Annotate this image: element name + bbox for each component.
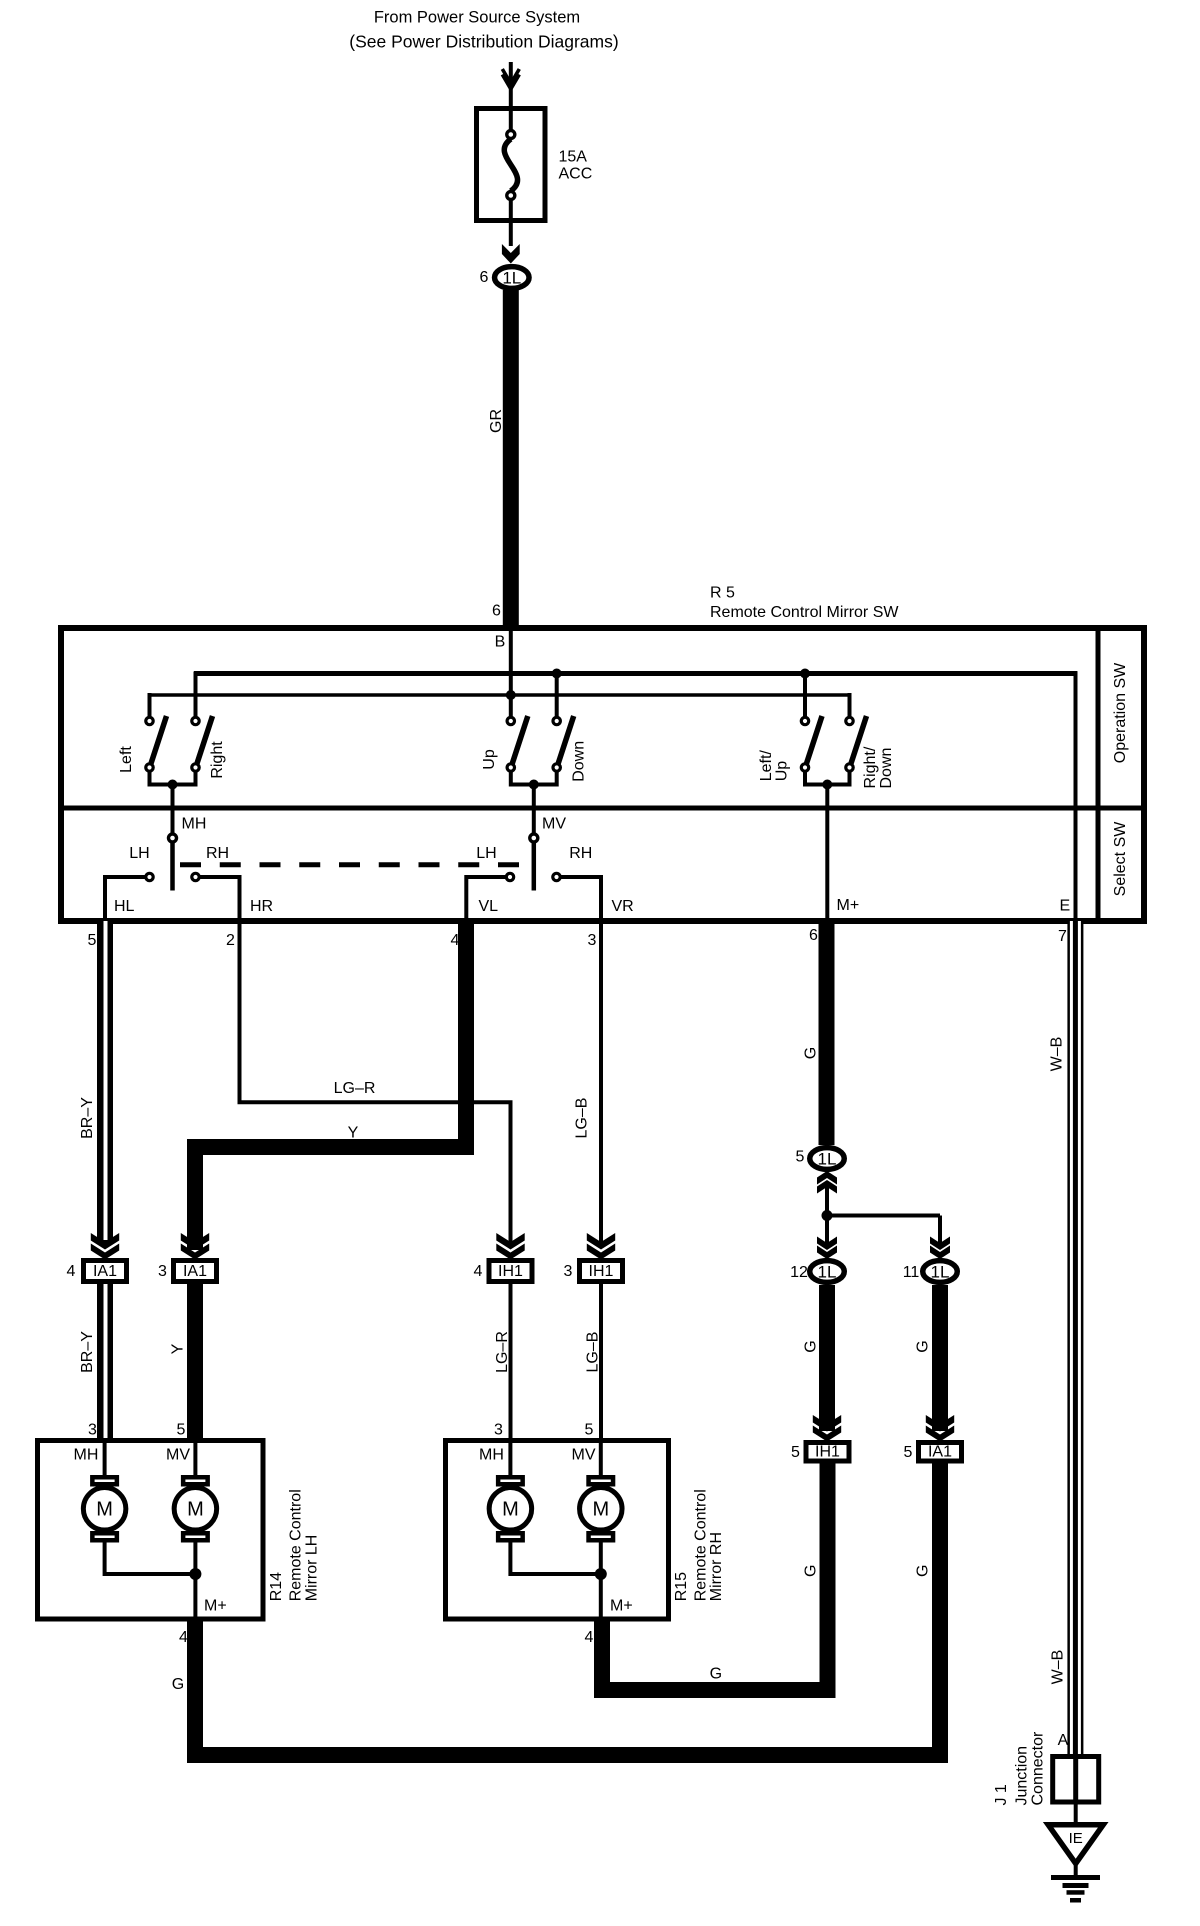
svg-text:MV: MV: [166, 1447, 190, 1464]
svg-text:W–B: W–B: [1050, 1650, 1067, 1685]
svg-text:2: 2: [226, 932, 235, 949]
svg-text:1L: 1L: [502, 269, 521, 288]
svg-text:IA1: IA1: [183, 1263, 207, 1280]
svg-text:Y: Y: [348, 1125, 359, 1142]
svg-text:Up: Up: [773, 761, 790, 782]
svg-text:RH: RH: [206, 845, 229, 862]
svg-text:GR: GR: [488, 409, 505, 433]
svg-text:Down: Down: [878, 748, 895, 789]
svg-text:3: 3: [88, 1422, 97, 1439]
svg-text:Right: Right: [209, 741, 226, 779]
svg-text:5: 5: [904, 1444, 913, 1461]
svg-text:15A: 15A: [559, 149, 588, 166]
svg-text:Operation SW: Operation SW: [1112, 662, 1129, 763]
svg-text:12: 12: [790, 1264, 808, 1281]
svg-text:M: M: [592, 1498, 609, 1520]
svg-text:ACC: ACC: [559, 166, 593, 183]
svg-text:5: 5: [791, 1444, 800, 1461]
svg-text:HR: HR: [250, 898, 273, 915]
svg-text:Left: Left: [118, 746, 135, 773]
svg-text:7: 7: [1058, 928, 1067, 945]
svg-text:RH: RH: [569, 845, 592, 862]
svg-text:G: G: [802, 1047, 819, 1059]
svg-text:6: 6: [480, 269, 489, 286]
svg-text:M: M: [187, 1498, 204, 1520]
svg-text:Right/: Right/: [862, 746, 879, 788]
svg-text:MV: MV: [542, 816, 566, 833]
svg-text:Mirror RH: Mirror RH: [708, 1532, 725, 1601]
svg-text:Remote Control Mirror SW: Remote Control Mirror SW: [710, 604, 899, 621]
svg-text:IA1: IA1: [93, 1263, 117, 1280]
svg-text:1L: 1L: [818, 1263, 837, 1282]
svg-text:IA1: IA1: [928, 1444, 952, 1461]
svg-text:Junction: Junction: [1014, 1746, 1031, 1806]
svg-text:R15: R15: [673, 1572, 690, 1601]
svg-text:From Power Source System: From Power Source System: [374, 9, 580, 27]
svg-text:1L: 1L: [818, 1150, 837, 1169]
svg-text:3: 3: [494, 1422, 503, 1439]
svg-text:R 5: R 5: [710, 585, 735, 602]
svg-text:VR: VR: [612, 898, 634, 915]
svg-text:(See Power Distribution Diagra: (See Power Distribution Diagrams): [349, 32, 618, 52]
svg-text:G: G: [803, 1565, 820, 1577]
svg-text:4: 4: [179, 1629, 188, 1646]
svg-text:G: G: [710, 1666, 722, 1683]
svg-text:M: M: [96, 1498, 113, 1520]
svg-text:G: G: [915, 1340, 932, 1352]
svg-text:3: 3: [588, 932, 597, 949]
svg-text:5: 5: [585, 1422, 594, 1439]
svg-text:B: B: [495, 634, 506, 651]
svg-text:M: M: [502, 1498, 519, 1520]
svg-text:E: E: [1060, 898, 1071, 915]
svg-text:1L: 1L: [931, 1263, 950, 1282]
svg-text:LG–B: LG–B: [585, 1332, 602, 1373]
svg-text:LG–R: LG–R: [494, 1331, 511, 1373]
svg-text:5: 5: [88, 932, 97, 949]
svg-text:LG–R: LG–R: [334, 1080, 376, 1097]
svg-text:G: G: [915, 1565, 932, 1577]
svg-text:IE: IE: [1069, 1830, 1083, 1847]
svg-text:IH1: IH1: [498, 1263, 523, 1280]
svg-text:6: 6: [809, 927, 818, 944]
svg-text:VL: VL: [479, 898, 499, 915]
svg-text:5: 5: [796, 1149, 805, 1166]
svg-text:J 1: J 1: [993, 1784, 1010, 1805]
svg-text:4: 4: [67, 1263, 76, 1280]
svg-text:Select SW: Select SW: [1112, 821, 1129, 897]
svg-text:Down: Down: [571, 741, 588, 782]
svg-text:IH1: IH1: [589, 1263, 614, 1280]
svg-text:M+: M+: [837, 897, 860, 914]
svg-text:IH1: IH1: [815, 1444, 840, 1461]
svg-text:BR–Y: BR–Y: [79, 1097, 96, 1139]
svg-text:4: 4: [474, 1263, 483, 1280]
svg-text:BR–Y: BR–Y: [79, 1331, 96, 1373]
svg-text:Up: Up: [481, 749, 498, 770]
svg-text:M+: M+: [204, 1597, 227, 1614]
svg-text:Remote Control: Remote Control: [692, 1489, 709, 1601]
svg-text:LG–B: LG–B: [573, 1098, 590, 1139]
svg-text:HL: HL: [114, 898, 135, 915]
svg-text:MH: MH: [182, 816, 207, 833]
svg-text:MH: MH: [479, 1447, 504, 1464]
svg-text:3: 3: [564, 1263, 573, 1280]
svg-text:5: 5: [177, 1422, 186, 1439]
svg-text:6: 6: [492, 603, 501, 620]
svg-text:Connector: Connector: [1030, 1731, 1047, 1805]
svg-text:MH: MH: [74, 1447, 99, 1464]
svg-text:4: 4: [585, 1629, 594, 1646]
svg-text:G: G: [172, 1676, 184, 1693]
svg-text:LH: LH: [476, 845, 496, 862]
svg-text:A: A: [1058, 1732, 1069, 1749]
svg-text:Remote Control: Remote Control: [288, 1489, 305, 1601]
svg-text:R14: R14: [268, 1572, 285, 1601]
svg-text:M+: M+: [610, 1597, 633, 1614]
svg-text:W–B: W–B: [1049, 1037, 1066, 1072]
svg-text:11: 11: [903, 1264, 920, 1281]
svg-text:Y: Y: [170, 1343, 187, 1354]
svg-text:3: 3: [158, 1263, 167, 1280]
svg-text:G: G: [803, 1340, 820, 1352]
svg-text:LH: LH: [129, 845, 149, 862]
svg-text:MV: MV: [572, 1447, 596, 1464]
svg-text:Mirror LH: Mirror LH: [303, 1535, 320, 1602]
svg-text:Left/: Left/: [758, 750, 775, 782]
